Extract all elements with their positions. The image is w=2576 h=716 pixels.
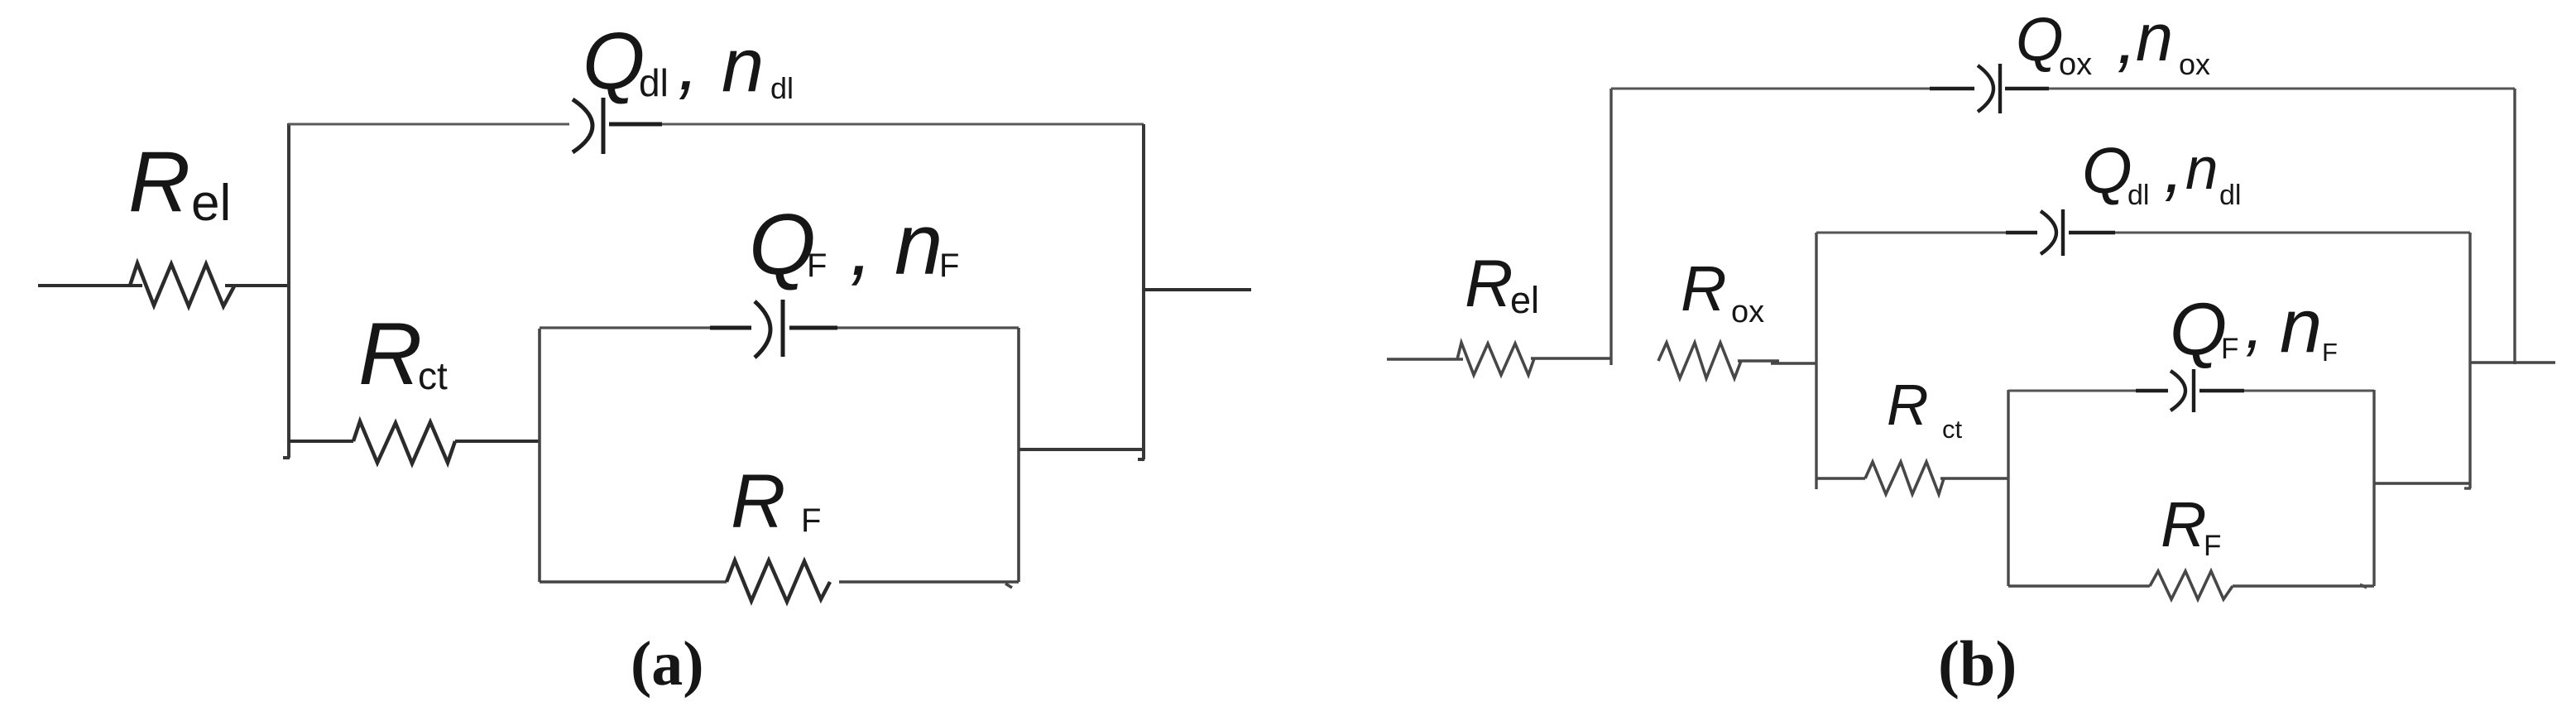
- label Rct (a): [358, 304, 448, 403]
- svg-text:F: F: [2204, 530, 2221, 562]
- capacitor Qox (b): [1930, 64, 2049, 113]
- capacitor QF (b): [2136, 369, 2244, 412]
- svg-text:ox: ox: [2059, 47, 2092, 82]
- svg-text:dl: dl: [2219, 180, 2241, 211]
- wire: inner box right vertical (b): [2372, 390, 2375, 586]
- svg-text:dl: dl: [2127, 180, 2149, 211]
- svg-text:,: ,: [2245, 287, 2264, 363]
- svg-text:ct: ct: [418, 354, 448, 397]
- svg-text:dl: dl: [770, 71, 794, 105]
- svg-text:R: R: [2161, 489, 2207, 560]
- label QF , nF (b): [2170, 284, 2338, 370]
- wire: inner box top edge (b): [2008, 390, 2374, 392]
- svg-text:ox: ox: [2179, 47, 2210, 81]
- wire: middle box top edge (b): [1816, 232, 2470, 234]
- svg-text:R: R: [1465, 247, 1513, 321]
- svg-text:ox: ox: [1731, 295, 1764, 329]
- wire: connector inner box to outer right (a): [1019, 448, 1145, 451]
- wire: middle box right vertical (b): [2464, 233, 2471, 488]
- wire: inner box bottom edge (a): [540, 582, 1019, 588]
- wire: inner box top edge (a): [540, 326, 1019, 329]
- label Rel (b): [1465, 247, 1539, 321]
- svg-text:n: n: [2280, 284, 2322, 368]
- capacitor Qdl (a): [573, 98, 662, 154]
- resistor Rct (b): [1865, 462, 1944, 494]
- svg-text:ct: ct: [1942, 415, 1963, 444]
- wire: Rct branch left segment (b): [1816, 477, 1865, 480]
- wire: Rel to node (a): [225, 284, 289, 287]
- wire: outer box right vertical (a): [1138, 124, 1144, 459]
- label Rct (b): [1887, 372, 1963, 444]
- resistor Rel (a): [130, 263, 235, 306]
- svg-text:R: R: [358, 304, 422, 403]
- svg-text:el: el: [191, 175, 231, 232]
- wire: connector inner box to middle right (b): [2374, 482, 2470, 485]
- wire: Rox to middle box (b): [1738, 361, 1816, 363]
- wire: outer box left vertical (b): [1609, 89, 1612, 365]
- svg-text:,: ,: [2117, 0, 2137, 79]
- wire: Rel to node (b): [1531, 357, 1611, 360]
- svg-text:(b): (b): [1938, 627, 2017, 699]
- wire: inner box bottom edge (b): [2008, 584, 2374, 588]
- svg-text:,: ,: [850, 200, 873, 293]
- svg-text:F: F: [2221, 333, 2238, 365]
- svg-text:,: ,: [678, 20, 699, 106]
- capacitor QF (a): [710, 300, 837, 358]
- resistor Rct (a): [353, 421, 455, 464]
- wire: left input lead (b): [1387, 358, 1463, 361]
- svg-text:Q: Q: [749, 197, 816, 293]
- svg-text:Q: Q: [583, 16, 645, 106]
- svg-text:el: el: [1510, 279, 1539, 321]
- wire: middle box left vertical (b): [1815, 233, 1817, 489]
- wire: outer box top edge (a): [288, 123, 1144, 126]
- wire: output lead (b): [2470, 361, 2555, 363]
- label Qox , nox (b): [2016, 0, 2210, 82]
- label Rox (b): [1681, 253, 1764, 329]
- svg-text:n: n: [2136, 1, 2173, 75]
- label RF (a): [731, 459, 821, 544]
- resistor Rel (b): [1457, 343, 1534, 375]
- svg-text:,: ,: [2164, 128, 2184, 208]
- svg-text:F: F: [801, 502, 821, 539]
- svg-text:Q: Q: [2082, 134, 2132, 207]
- wire: outer box top edge (b): [1611, 88, 2515, 90]
- wire: outer box left vertical (a): [283, 123, 290, 458]
- svg-text:R: R: [128, 134, 190, 230]
- svg-text:F: F: [939, 247, 959, 284]
- capacitor Qdl (b): [2006, 209, 2115, 256]
- wire: left input lead (a): [38, 284, 142, 287]
- label RF (b): [2161, 489, 2221, 562]
- wire: Rct to inner box (b): [1940, 477, 2008, 480]
- svg-text:R: R: [731, 459, 785, 544]
- label Qdl , ndl (a): [583, 16, 794, 108]
- svg-text:Q: Q: [2016, 5, 2064, 74]
- label Qdl , ndl (b): [2082, 128, 2241, 211]
- svg-text:n: n: [2185, 137, 2219, 202]
- resistor RF (b): [2150, 571, 2233, 599]
- wire: inner box left vertical (b): [2007, 390, 2009, 586]
- svg-text:R: R: [1887, 372, 1929, 437]
- label QF , nF (a): [749, 196, 959, 293]
- svg-text:Q: Q: [2170, 287, 2227, 370]
- wire: inner box right vertical (a): [1017, 328, 1020, 582]
- label Rel (a): [128, 134, 231, 232]
- svg-text:n: n: [722, 23, 764, 108]
- wire: output lead (a): [1144, 288, 1251, 291]
- wire: lower branch left segment (a): [289, 440, 353, 443]
- resistor Rox (b): [1658, 343, 1741, 378]
- svg-text:R: R: [1681, 253, 1727, 324]
- svg-text:dl: dl: [639, 61, 669, 104]
- wire: outer box right vertical (b): [2513, 89, 2516, 364]
- svg-text:F: F: [2322, 338, 2338, 367]
- wire: Rct to inner box (a): [455, 440, 540, 443]
- svg-text:F: F: [807, 247, 827, 284]
- wire: inner box left vertical (a): [538, 329, 541, 582]
- svg-text:n: n: [895, 196, 943, 293]
- svg-text:(a): (a): [631, 629, 704, 699]
- resistor RF (a): [727, 560, 830, 602]
